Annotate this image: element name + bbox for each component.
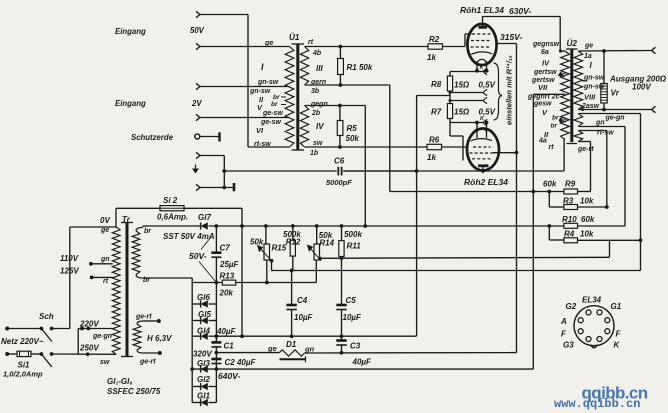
resistor R5 — [337, 121, 343, 136]
node junction fuse drop — [240, 224, 244, 228]
svg-text:Ü2: Ü2 — [567, 38, 578, 48]
svg-text:R10: R10 — [562, 215, 577, 224]
svg-text:Gl4: Gl4 — [197, 327, 210, 336]
wire 2V input to gn-sw tap — [200, 86, 290, 88]
svg-text:0,5V: 0,5V — [479, 81, 496, 90]
wire suppressor link — [450, 135, 463, 137]
wire U2 2c tap — [533, 93, 565, 95]
wire x416 vertical — [416, 96, 418, 337]
svg-text:4b: 4b — [312, 50, 322, 57]
svg-text:III: III — [316, 64, 323, 73]
svg-text:C1: C1 — [224, 342, 235, 351]
svg-text:1k: 1k — [427, 153, 436, 162]
svg-text:50V: 50V — [190, 26, 205, 35]
brace einstellen — [494, 63, 503, 120]
node junction R4 right — [639, 238, 643, 242]
wire R6 to tube2 grid — [442, 146, 469, 148]
wire Gl2-Gl1 link — [215, 369, 217, 402]
wire rail y336 — [209, 335, 417, 337]
svg-text:H 6,3V: H 6,3V — [147, 334, 172, 343]
svg-text:Gl2: Gl2 — [197, 375, 210, 384]
wire 250V row — [52, 353, 117, 355]
svg-text:R2: R2 — [429, 35, 440, 44]
U1 br tap stubs — [281, 96, 286, 98]
svg-text:C3: C3 — [350, 342, 361, 351]
transformer U2 winding III — [574, 114, 583, 127]
node junction C1 top — [215, 334, 219, 338]
potentiometer R14 — [316, 226, 318, 244]
chassis bar (Schutzerde) — [218, 132, 220, 141]
svg-text:gn-sw: gn-sw — [257, 79, 279, 86]
svg-text:C5: C5 — [346, 296, 357, 305]
diode Gl1 — [192, 402, 200, 404]
svg-text:gn: gn — [595, 120, 605, 127]
diode Gl2 — [192, 386, 200, 388]
resistor R13 — [222, 280, 235, 285]
svg-text:1b: 1b — [310, 150, 319, 157]
svg-text:G1: G1 — [611, 302, 622, 311]
svg-text:gesw: gesw — [533, 101, 552, 108]
svg-text:Gl7: Gl7 — [198, 213, 211, 222]
svg-text:C7: C7 — [220, 244, 231, 253]
wire x533 vertical — [532, 94, 534, 369]
svg-text:Eingang: Eingang — [115, 27, 146, 36]
wire row A — [271, 270, 640, 272]
svg-text:ge-rt: ge-rt — [139, 359, 156, 366]
tube Roeh1 grid2 (dashed) — [471, 40, 490, 42]
U2 mid tap stub — [583, 80, 588, 82]
svg-text:gn-sw: gn-sw — [583, 75, 605, 82]
tube Roeh2 anode plate — [478, 164, 489, 167]
resistor R7 — [447, 104, 452, 119]
wire mains bottom b — [31, 353, 41, 355]
svg-text:ge: ge — [267, 344, 277, 353]
tube Roeh2 grid3 (dashed) — [472, 158, 492, 160]
node junction C7 top — [215, 224, 219, 228]
transformer U1 secondary III winding — [300, 47, 308, 86]
svg-text:10µF: 10µF — [343, 313, 363, 322]
svg-text:www.qqibb.cn: www.qqibb.cn — [554, 397, 640, 411]
tube Roeh2 grid1 (dashed) — [473, 146, 491, 148]
wire R10-R4 link — [548, 226, 550, 240]
wire VI bottom tap ge-rt — [578, 141, 590, 143]
wire U2 4a tap drop — [563, 140, 565, 172]
tube Roeh1 grid1 (dashed) — [472, 33, 491, 35]
node junction R5 bottom — [338, 145, 342, 149]
svg-text:5000pF: 5000pF — [326, 178, 352, 187]
svg-text:br: br — [273, 94, 280, 101]
mains terminal bottom — [5, 352, 9, 356]
resistor R3 — [564, 205, 578, 210]
svg-text:10µF: 10µF — [294, 313, 314, 322]
wire output top row — [578, 50, 651, 53]
node junction C3 bottom — [340, 351, 344, 355]
wire R9 row — [390, 191, 564, 193]
wire heater bottom tap — [143, 352, 160, 354]
svg-text:25µF: 25µF — [219, 260, 240, 269]
svg-text:500k: 500k — [344, 230, 362, 239]
svg-text:sw: sw — [313, 140, 323, 147]
svg-text:630V-: 630V- — [509, 6, 532, 16]
svg-text:315V-: 315V- — [500, 32, 523, 42]
fuse Si1 — [17, 351, 31, 356]
svg-text:ge: ge — [100, 227, 109, 234]
wire output bottom row — [578, 109, 651, 111]
svg-text:R13: R13 — [220, 272, 235, 281]
node junction 640V left — [190, 367, 194, 371]
node junction 250V — [86, 352, 90, 356]
svg-text:C4: C4 — [297, 296, 308, 305]
svg-text:R15: R15 — [272, 244, 287, 253]
EL34 socket key — [591, 345, 597, 348]
svg-text:15Ω: 15Ω — [454, 108, 470, 117]
input terminal (top aux) — [196, 11, 200, 17]
svg-text:SST 50V 4mA: SST 50V 4mA — [163, 232, 215, 241]
wire 50V input to transformer — [200, 46, 290, 48]
input terminal (ge-sw) — [196, 114, 200, 120]
diode Gl6 — [192, 303, 200, 305]
svg-text:R9: R9 — [565, 180, 576, 189]
svg-text:2b: 2b — [311, 110, 321, 117]
potentiometer R15 — [265, 226, 267, 244]
input terminal Eingang 50V — [196, 43, 200, 49]
tube Roeh1 cathode leads — [476, 61, 478, 71]
svg-text:Vr: Vr — [611, 89, 620, 98]
wire heater top tap — [143, 320, 159, 322]
node junction anode — [481, 169, 485, 173]
svg-text:br: br — [552, 115, 559, 122]
wire R15 wiper drop — [271, 261, 273, 271]
wire br top tap — [142, 226, 145, 228]
wire 640V rail — [192, 368, 533, 370]
svg-text:rt: rt — [549, 144, 555, 151]
svg-text:ge-rt: ge-rt — [135, 314, 152, 321]
svg-text:1a: 1a — [584, 53, 592, 60]
wire D1 row right — [305, 352, 517, 354]
tap 125V — [90, 276, 94, 280]
svg-text:R6: R6 — [429, 136, 440, 145]
transformer U2 winding VI — [574, 131, 583, 142]
svg-text:D1: D1 — [286, 340, 297, 349]
node junction (225,187.5) — [222, 186, 226, 190]
tube U1 anode supply wire 630V — [482, 17, 484, 28]
svg-text:50k: 50k — [346, 134, 360, 143]
svg-text:4c: 4c — [557, 72, 566, 79]
transformer U1 primary winding — [285, 47, 294, 148]
resistor R11 — [341, 226, 343, 241]
node junction 220V b — [87, 327, 91, 331]
tube Roeh2 anode lead — [482, 166, 484, 172]
node R15 wiper — [270, 259, 274, 263]
tube Roeh2 cathode arc — [471, 139, 493, 141]
wire tap link vertical — [77, 329, 79, 355]
transformer Tr heater winding — [133, 324, 141, 350]
wire R8 bottom row — [450, 92, 484, 94]
node tube1 cathode — [475, 69, 479, 73]
svg-text:IV: IV — [316, 122, 324, 131]
wire shield b — [200, 187, 234, 189]
resistor R1 — [338, 59, 344, 75]
svg-text:C2 40µF: C2 40µF — [225, 358, 257, 367]
mains terminal top — [5, 327, 9, 331]
wire 4b tap row to R2 — [305, 46, 429, 48]
wire vertical bus x248 to rt-sw tap — [247, 15, 249, 148]
tube Roeh1 envelope — [467, 24, 496, 65]
svg-text:rt: rt — [103, 278, 109, 285]
ground arrow symbol — [195, 165, 197, 169]
EL34 socket circle — [574, 306, 614, 346]
transformer U2 core — [570, 50, 573, 143]
node tube2 cathode — [475, 121, 479, 125]
svg-text:rt: rt — [308, 39, 314, 46]
wire x450 vertical b — [449, 91, 451, 104]
wire R7 bottom row to tube2 cathode — [450, 122, 484, 124]
svg-text:40µF: 40µF — [352, 358, 373, 367]
svg-text:ge-rt: ge-rt — [577, 146, 594, 153]
node junction (533,191.5) — [531, 190, 535, 194]
node 4c tap — [559, 73, 563, 77]
svg-text:60k: 60k — [581, 215, 595, 224]
tube Roeh1 heater — [477, 59, 487, 62]
svg-text:250V: 250V — [79, 344, 99, 353]
Schutzerde terminal circle — [195, 134, 200, 139]
wire row D riser — [609, 240, 611, 257]
tube Roeh2 grid2 (dashed) — [470, 152, 494, 154]
svg-text:Gl6: Gl6 — [197, 293, 210, 302]
input terminal (shield b) — [196, 184, 200, 190]
node 6c tap — [559, 119, 563, 123]
capacitor C3 — [341, 336, 343, 340]
wire vertical x225 — [223, 156, 225, 188]
wire x450 vertical a — [449, 72, 451, 77]
wire top input to vertical bus — [200, 14, 248, 16]
node junction gegn rail — [363, 224, 367, 228]
node junction C4 bottom — [290, 334, 294, 338]
resistor R2 — [428, 44, 443, 49]
svg-text:C6: C6 — [334, 157, 345, 166]
node junction 220V a — [80, 327, 84, 331]
svg-text:IV: IV — [542, 59, 550, 68]
node junction R15 bottom — [265, 281, 269, 285]
wire Schutzerde to chassis — [200, 136, 220, 138]
node junction C1-C2 — [215, 351, 219, 355]
node junction C5 bottom — [340, 334, 344, 338]
svg-text:rt-sw: rt-sw — [254, 141, 271, 148]
svg-text:gn: gn — [304, 345, 315, 354]
node junction R1 top — [339, 45, 343, 49]
node junction R14 top — [315, 224, 319, 228]
tube Roeh2 envelope — [467, 129, 499, 171]
svg-text:50k: 50k — [250, 238, 264, 247]
wire R14 bottom to row B — [315, 260, 317, 283]
svg-text:3b: 3b — [311, 88, 320, 95]
input terminal Eingang 2V — [196, 83, 200, 89]
svg-text:6a: 6a — [541, 49, 549, 56]
svg-text:Röh2 EL34: Röh2 EL34 — [464, 177, 508, 187]
node junction (416,171) — [415, 169, 419, 173]
svg-text:gn-sw: gn-sw — [249, 88, 271, 95]
diode D1 (zigzag) — [279, 350, 305, 356]
wire feedback vertical x390 — [389, 85, 391, 192]
wire III top tap ge-gn — [578, 113, 640, 115]
transformer U1 core — [296, 44, 299, 150]
transformer Tr core — [126, 223, 129, 357]
wire row B right — [236, 282, 267, 284]
diode Gl4 — [192, 335, 200, 337]
svg-text:20k: 20k — [219, 289, 234, 298]
probe mark (R8 bottom) — [483, 89, 487, 95]
resistor R8 — [447, 76, 452, 91]
svg-text:ge-gn: ge-gn — [92, 333, 112, 340]
wire 50V rail — [209, 225, 564, 227]
resistor R6 — [427, 144, 442, 149]
wire input to ge-sw tap — [200, 117, 290, 119]
svg-text:Röh1 EL34: Röh1 EL34 — [460, 5, 504, 15]
wire tube1 g2 to screen bus — [497, 43, 517, 45]
tube Roeh1 anode plate — [479, 26, 488, 29]
transformer Tr primary winding — [112, 227, 120, 354]
svg-text:10k: 10k — [580, 196, 594, 205]
wire mains top — [7, 328, 41, 330]
svg-text:ge: ge — [264, 38, 273, 47]
wire R7 top row — [450, 100, 484, 102]
svg-text:Eingang: Eingang — [115, 99, 146, 108]
svg-text:1,0/2,0Amp: 1,0/2,0Amp — [3, 369, 43, 378]
node junction R15 top — [264, 224, 268, 228]
svg-text:einstellen mit R¹⁴/₁₅: einstellen mit R¹⁴/₁₅ — [505, 55, 514, 125]
node junction R10 left — [547, 224, 551, 228]
wire cathode node row — [450, 71, 489, 73]
svg-text:6c: 6c — [559, 118, 567, 125]
wire mains bottom a — [7, 353, 17, 355]
node junction R3 right — [605, 205, 609, 209]
svg-text:VI: VI — [256, 126, 264, 135]
node junction R11 top — [340, 224, 344, 228]
svg-text:1k: 1k — [427, 53, 436, 62]
svg-text:VII: VII — [538, 83, 548, 92]
resistor R9 — [564, 189, 578, 194]
svg-text:EL34: EL34 — [582, 296, 602, 305]
svg-text:VIII: VIII — [584, 93, 596, 102]
svg-text:Gl3: Gl3 — [197, 359, 210, 368]
svg-text:4a: 4a — [538, 138, 547, 145]
svg-text:Si1: Si1 — [18, 361, 31, 370]
wire VI top tap rt-sw — [578, 130, 607, 132]
switch Sch — [40, 327, 44, 331]
svg-text:R11: R11 — [347, 242, 362, 251]
capacitor C6 — [224, 170, 336, 172]
wire R9-R3 link — [548, 192, 550, 208]
wire D1 row left — [216, 352, 279, 354]
node junction R12 top — [291, 224, 295, 228]
wire 0V tap — [70, 226, 116, 228]
node junction R5 top — [338, 104, 342, 108]
svg-text:A: A — [560, 317, 567, 326]
capacitor C2 — [211, 358, 221, 361]
transformer Tr secondary br winding — [132, 231, 140, 275]
svg-text:Netz 220V~: Netz 220V~ — [1, 337, 44, 346]
node junction g2 bus — [515, 151, 519, 155]
svg-text:R8: R8 — [431, 80, 442, 89]
svg-text:Gl5: Gl5 — [198, 310, 211, 319]
probe mark (R7 top) — [483, 97, 487, 103]
tap 110V — [89, 262, 93, 266]
leader line 50V- up — [201, 237, 211, 250]
svg-text:sw: sw — [100, 359, 110, 366]
output terminal (top) — [652, 47, 656, 53]
svg-text:gertsw: gertsw — [533, 69, 557, 76]
wire III bottom tap gn — [578, 126, 625, 128]
svg-text:G3: G3 — [563, 341, 574, 350]
svg-text:15Ω: 15Ω — [454, 81, 470, 90]
svg-text:gegn: gegn — [310, 101, 328, 108]
svg-text:Ü1: Ü1 — [289, 32, 300, 42]
node junction R9 left — [547, 190, 551, 194]
svg-text:Gl1: Gl1 — [197, 392, 210, 401]
svg-text:Si 2: Si 2 — [163, 196, 178, 205]
transformer U1 secondary IV winding — [300, 106, 308, 148]
output terminal (bottom) — [652, 106, 656, 112]
svg-text:Schutzerde: Schutzerde — [131, 133, 174, 142]
node junction (225,171) — [222, 169, 226, 173]
wire R2 to tube1 grid — [443, 46, 466, 48]
wire br top tap to Gl7 — [143, 225, 201, 227]
wire screen bus x516 — [516, 44, 518, 353]
wire tube2 g2 to screen bus — [493, 152, 517, 154]
svg-text:R5: R5 — [347, 124, 358, 133]
node R11 bottom row D — [340, 256, 344, 260]
transformer U2 primary winding — [561, 51, 570, 140]
svg-text:60k: 60k — [543, 180, 557, 189]
EL34 socket pins — [586, 310, 591, 315]
svg-text:br: br — [271, 101, 278, 108]
node junction C2 bottom — [215, 367, 219, 371]
resistor Vr — [603, 51, 605, 84]
fuse Si2 — [160, 206, 184, 211]
wire br bottom tap — [143, 277, 193, 279]
svg-text:ge: ge — [584, 43, 593, 50]
capacitor C1 — [215, 336, 217, 342]
diode Gl3 (on 640V rail) — [200, 366, 202, 373]
svg-text:2V: 2V — [191, 99, 202, 108]
wire 220V row — [78, 328, 113, 330]
tube Roeh2 heater — [477, 129, 487, 132]
svg-text:ge-gn: ge-gn — [605, 115, 625, 122]
wire Gl stack right rail — [215, 283, 217, 342]
wire 2b gegn tap row — [305, 105, 366, 107]
svg-text:320V: 320V — [193, 350, 212, 359]
svg-text:R7: R7 — [431, 108, 442, 117]
wire row B left — [192, 282, 222, 284]
svg-text:br: br — [551, 123, 558, 130]
wire 1b sw tap row to R6 — [305, 146, 428, 148]
probe mark (R8 top) — [483, 68, 487, 74]
chassis bar (shield b) — [233, 183, 236, 191]
resistor R10 — [564, 223, 578, 228]
resistor R12 — [292, 226, 294, 240]
svg-text:Gl₁-Gl₆: Gl₁-Gl₆ — [107, 377, 133, 386]
svg-text:gn: gn — [100, 256, 110, 263]
resistor R4 — [564, 238, 578, 243]
svg-text:100V: 100V — [632, 83, 651, 92]
svg-text:SSFEC 250/75: SSFEC 250/75 — [107, 387, 161, 396]
wire 3b tap row — [305, 84, 390, 86]
svg-text:40µF: 40µF — [216, 327, 237, 336]
capacitor C7 — [215, 226, 217, 252]
svg-text:10k: 10k — [580, 230, 594, 239]
node junction Vr bottom — [602, 108, 606, 112]
wire fuse to rail drop — [184, 207, 242, 209]
